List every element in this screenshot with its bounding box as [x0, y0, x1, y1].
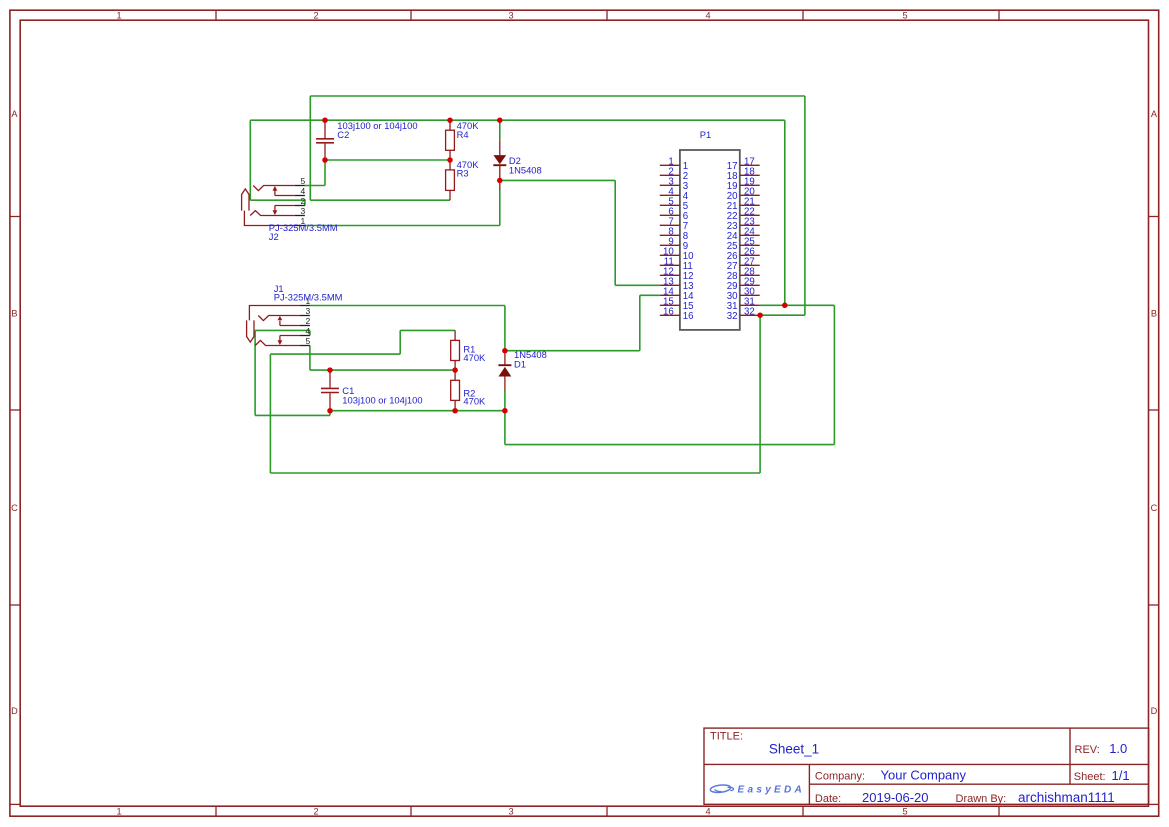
wire drop to P1 pin 13 row — [614, 180, 616, 285]
svg-text:5: 5 — [306, 336, 311, 346]
svg-text:Your Company: Your Company — [881, 768, 967, 783]
node D1 cathode — [502, 348, 508, 354]
svg-text:C: C — [1151, 503, 1158, 513]
svg-text:4: 4 — [306, 326, 311, 336]
wire riser to P1 pin 31 — [784, 120, 786, 305]
svg-text:470K: 470K — [463, 352, 486, 363]
node R2 bottom — [452, 408, 458, 414]
wire P1 pin 32 horizontal — [760, 314, 805, 316]
svg-text:C: C — [11, 503, 18, 513]
connector P1 — [680, 129, 740, 330]
P1 right pin names — [727, 161, 738, 322]
svg-text:16: 16 — [663, 306, 674, 317]
svg-text:A: A — [1151, 109, 1158, 119]
wire to J2 pin 2 — [250, 200, 305, 205]
svg-text:3: 3 — [301, 206, 306, 216]
svg-text:B: B — [11, 309, 17, 319]
J2 pin numbers — [301, 176, 306, 226]
svg-text:3: 3 — [306, 306, 311, 316]
wire D2 anode stub — [499, 120, 501, 140]
wire staircase horizontal — [270, 353, 400, 355]
svg-text:PJ-325M/3.5MM: PJ-325M/3.5MM — [274, 292, 343, 303]
resistor R4 — [446, 120, 455, 160]
wire riser x=310 — [309, 96, 311, 200]
J1 pin numbers — [306, 296, 311, 346]
wire D2 cathode horizontal — [500, 179, 615, 181]
diode D2 — [493, 140, 506, 190]
frame column labels top — [116, 10, 907, 20]
wire R1 top horizontal — [400, 329, 455, 331]
J1 labels — [274, 283, 343, 302]
svg-text:D: D — [11, 706, 18, 716]
svg-text:R4: R4 — [457, 129, 469, 140]
capacitor C1 — [321, 370, 339, 411]
wire R3 bottom horizontal — [310, 199, 450, 201]
wires (green) — [250, 96, 834, 473]
svg-text:32: 32 — [727, 311, 738, 322]
svg-text:Drawn By:: Drawn By: — [956, 793, 1007, 805]
svg-text:3: 3 — [508, 10, 513, 20]
node P1 pin 32 — [757, 312, 763, 318]
node C2 bottom — [322, 157, 328, 163]
svg-text:103j100 or 104j100: 103j100 or 104j100 — [337, 120, 417, 131]
wire bottom rail C1/R2/D1 — [330, 410, 505, 412]
wire top long rail — [310, 95, 805, 97]
svg-text:4: 4 — [301, 186, 306, 196]
diode D1 — [498, 351, 511, 391]
svg-text:5: 5 — [301, 176, 306, 186]
svg-text:D1: D1 — [514, 359, 526, 370]
node C2 top — [322, 117, 328, 123]
svg-text:103j100 or 104j100: 103j100 or 104j100 — [342, 394, 422, 405]
resistor R1 — [451, 330, 460, 370]
wire left drop x=255 — [254, 330, 256, 415]
wire bottom jog horizontal — [255, 414, 330, 416]
wire J2 pin 1 horizontal — [305, 225, 500, 227]
resistor R2 — [451, 370, 460, 411]
svg-text:3: 3 — [508, 807, 513, 817]
svg-text:R3: R3 — [457, 168, 469, 179]
svg-text:5: 5 — [902, 10, 907, 20]
svg-text:1/1: 1/1 — [1112, 768, 1130, 783]
svg-text:archishman1111: archishman1111 — [1018, 790, 1115, 805]
P1 right pins 17-32 — [740, 165, 760, 315]
wire left riser to J2 pin 2 — [249, 120, 251, 200]
wire to J2 pin 5 — [305, 185, 325, 187]
node C1 top — [327, 367, 333, 373]
P1 left pin numbers — [663, 156, 674, 317]
svg-text:1: 1 — [116, 807, 121, 817]
wire right drop from pin 31 — [833, 305, 835, 444]
wire J1 pin 5 drop — [309, 346, 311, 371]
svg-text:2: 2 — [306, 316, 311, 326]
svg-text:Sheet_1: Sheet_1 — [769, 741, 819, 756]
svg-text:5: 5 — [902, 807, 907, 817]
svg-text:2: 2 — [313, 807, 318, 817]
J2 pin tips — [295, 186, 305, 226]
wire C2 bottom drop — [324, 160, 326, 186]
wire J1 pin 4 horizontal — [255, 329, 310, 331]
node D1 anode — [502, 408, 508, 414]
wire J1 pin 1 drop to D1 — [504, 306, 506, 351]
wire left riser x=270 — [269, 354, 271, 473]
svg-text:A: A — [11, 109, 18, 119]
node D2 top — [497, 117, 503, 123]
wire D2 cathode to J2 pin 1 — [499, 190, 501, 226]
frame row labels right — [1151, 109, 1158, 716]
svg-text:P1: P1 — [700, 129, 711, 140]
wire D1 anode drop — [504, 411, 506, 445]
svg-text:2: 2 — [301, 196, 306, 206]
node D2 cathode — [497, 178, 503, 184]
svg-text:D: D — [1151, 706, 1158, 716]
wire to P1 pin 14 — [640, 294, 660, 296]
wire D1 cathode horizontal — [505, 350, 640, 352]
wire C2/R4/R3 mid rail — [325, 159, 450, 161]
wire right riser to P1 pin 32 — [804, 96, 806, 315]
svg-text:Date:: Date: — [815, 793, 841, 805]
svg-text:2019-06-20: 2019-06-20 — [862, 790, 929, 805]
wire D1 anode lower stub — [504, 390, 506, 411]
frame column labels bottom — [116, 807, 907, 817]
wire staircase riser — [399, 330, 401, 354]
svg-text:Sheet:: Sheet: — [1074, 771, 1106, 783]
wire bottom long rail — [270, 472, 760, 474]
node C1 bottom — [327, 408, 333, 414]
svg-text:1N5408: 1N5408 — [509, 165, 542, 176]
svg-text:16: 16 — [683, 311, 694, 322]
svg-text:Company:: Company: — [815, 771, 865, 783]
wire C1/R1/R2 mid rail — [310, 369, 455, 371]
wire net J2.2/C2/R4/D2 top rail — [250, 119, 785, 121]
wire jog up to C1 — [329, 411, 331, 416]
node R4 top — [447, 117, 453, 123]
svg-text:REV:: REV: — [1075, 744, 1100, 756]
wire P1 pin 31 horizontal — [760, 304, 835, 306]
node P1 pin 31 — [782, 303, 788, 309]
svg-text:B: B — [1151, 309, 1157, 319]
audio jack J1 — [247, 306, 300, 346]
svg-text:4: 4 — [705, 10, 710, 20]
node R4/R3 mid — [447, 157, 453, 163]
wire jog to J1 pin 4 — [309, 330, 311, 335]
P1 left pins 1-16 — [660, 165, 680, 315]
P1 right pin numbers — [744, 156, 755, 317]
svg-text:1: 1 — [116, 10, 121, 20]
svg-text:4: 4 — [705, 807, 710, 817]
EasyEDA logo — [710, 784, 734, 793]
wire riser to P1 pin 14 — [639, 295, 641, 350]
svg-text:470K: 470K — [463, 396, 486, 407]
P1 left pin names — [683, 161, 694, 322]
wire bottom return to D1 — [505, 444, 835, 446]
wire drop from pin 32 — [759, 315, 761, 473]
svg-text:EasyEDA: EasyEDA — [738, 784, 806, 795]
frame row labels left — [11, 109, 18, 716]
audio jack J2 — [242, 186, 295, 226]
svg-text:PJ-325M/3.5MM: PJ-325M/3.5MM — [269, 222, 338, 233]
junction dots — [322, 117, 787, 413]
wire to P1 pin 13 — [615, 284, 660, 286]
svg-text:1.0: 1.0 — [1109, 741, 1127, 756]
J2 labels — [269, 222, 338, 242]
svg-text:2: 2 — [313, 10, 318, 20]
capacitor C2 — [316, 120, 334, 160]
wire J1 pin 1 horizontal — [310, 305, 505, 307]
svg-text:J2: J2 — [269, 231, 279, 242]
node R1/R2 mid — [452, 367, 458, 373]
svg-text:TITLE:: TITLE: — [710, 731, 743, 743]
title block — [704, 728, 1149, 804]
resistor R3 — [446, 160, 455, 200]
svg-text:C2: C2 — [337, 129, 349, 140]
svg-text:32: 32 — [744, 306, 755, 317]
J1 pin tips — [300, 306, 310, 346]
